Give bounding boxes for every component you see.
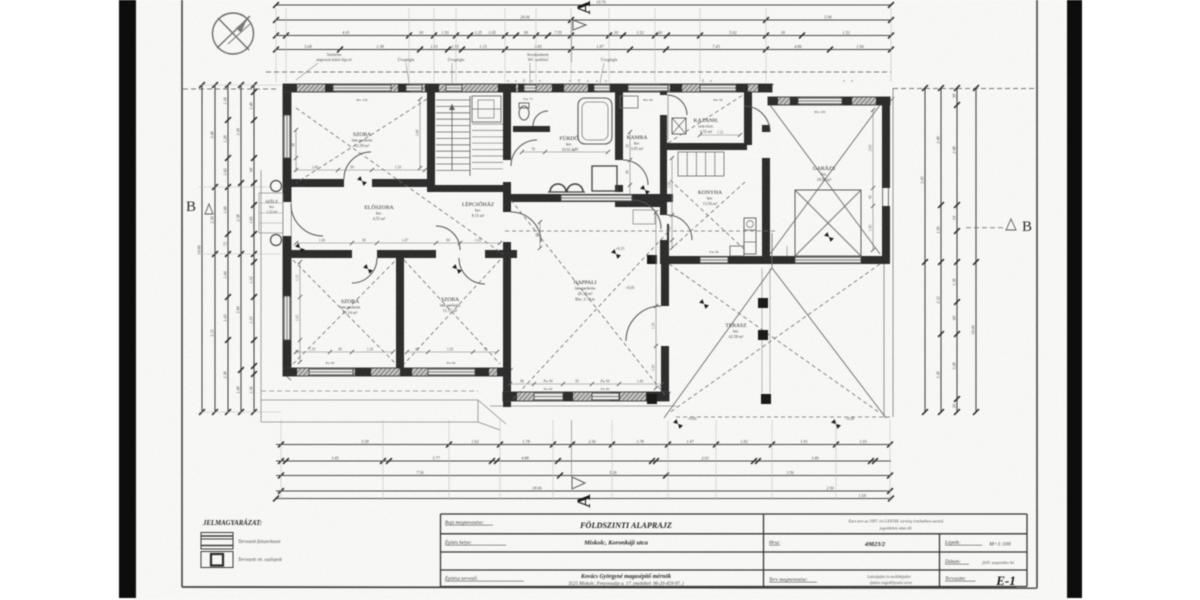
- svg-text:A: A: [574, 0, 595, 14]
- svg-text:18: 18: [577, 79, 581, 83]
- svg-text:bet.: bet.: [733, 329, 739, 334]
- svg-text:8: 8: [595, 80, 599, 82]
- svg-text:13.56 m²: 13.56 m²: [703, 201, 718, 206]
- svg-text:WC szellőző: WC szellőző: [528, 57, 549, 62]
- svg-text:90: 90: [338, 348, 342, 352]
- svg-text:1.50: 1.50: [441, 30, 449, 35]
- svg-text:SZÉLF.: SZÉLF.: [265, 199, 278, 204]
- svg-text:1.90: 1.90: [668, 182, 672, 188]
- svg-text:jogvédelem alatt áll.: jogvédelem alatt áll.: [879, 526, 913, 531]
- svg-text:1.78: 1.78: [522, 439, 530, 444]
- svg-text:2.40: 2.40: [936, 135, 941, 143]
- svg-text:lam.parketta: lam.parketta: [340, 305, 361, 310]
- svg-text:Bw 150: Bw 150: [357, 98, 368, 102]
- svg-text:90: 90: [362, 239, 366, 243]
- svg-text:3.05 m²: 3.05 m²: [631, 146, 644, 151]
- svg-text:1.55: 1.55: [451, 44, 458, 49]
- svg-text:1.43: 1.43: [223, 314, 228, 321]
- svg-text:26.58 m²: 26.58 m²: [578, 291, 593, 296]
- svg-text:4.55 m²: 4.55 m²: [373, 216, 386, 221]
- svg-text:Pw 90: Pw 90: [599, 380, 609, 384]
- svg-text:8: 8: [530, 80, 534, 82]
- svg-text:Bw 240: Bw 240: [815, 110, 826, 114]
- svg-text:8: 8: [850, 80, 854, 82]
- svg-text:bet.: bet.: [821, 172, 827, 177]
- svg-text:Ezen terv az 1997. évi LXXVIII: Ezen terv az 1997. évi LXXVIII. törvény …: [848, 519, 944, 524]
- svg-text:60: 60: [869, 195, 873, 199]
- svg-text:1.22 m²: 1.22 m²: [266, 210, 277, 214]
- svg-text:3.45: 3.45: [331, 456, 338, 461]
- svg-text:5.68: 5.68: [304, 44, 312, 49]
- svg-text:1.52: 1.52: [249, 276, 254, 283]
- svg-text:5.26: 5.26: [609, 470, 617, 475]
- svg-text:3.28: 3.28: [952, 361, 957, 369]
- svg-text:2.10: 2.10: [572, 148, 578, 152]
- svg-text:3525 Miskolc, Fenyvesalja u. 1: 3525 Miskolc, Fenyvesalja u. 17. (mobilt…: [568, 582, 684, 587]
- svg-text:3.40: 3.40: [811, 456, 819, 461]
- svg-text:Építész tervező:: Építész tervező:: [444, 574, 478, 582]
- svg-text:5.45: 5.45: [920, 176, 925, 183]
- svg-text:18: 18: [522, 79, 526, 83]
- svg-text:JELMAGYARÁZAT:: JELMAGYARÁZAT:: [202, 519, 262, 527]
- svg-text:B: B: [186, 199, 196, 215]
- svg-text:A: A: [574, 494, 595, 508]
- svg-text:4.41: 4.41: [342, 30, 349, 35]
- svg-text:Miskolc, Koronkáji utca: Miskolc, Koronkáji utca: [583, 540, 649, 547]
- svg-text:1.18: 1.18: [309, 348, 315, 352]
- svg-text:1.38: 1.38: [376, 44, 384, 49]
- svg-text:Bm: 2.70 m: Bm: 2.70 m: [575, 297, 595, 302]
- svg-text:1.47: 1.47: [686, 439, 694, 444]
- svg-text:ker.: ker.: [376, 211, 382, 216]
- svg-text:Bw 90: Bw 90: [643, 98, 652, 102]
- svg-text:építési engedélyezési terve: építési engedélyezési terve: [870, 580, 913, 585]
- svg-text:2.48: 2.48: [952, 145, 957, 153]
- svg-text:82: 82: [668, 226, 672, 230]
- svg-text:13.14 m²: 13.14 m²: [343, 310, 358, 315]
- svg-text:49823/2: 49823/2: [864, 541, 885, 548]
- svg-text:Pw 90: Pw 90: [544, 387, 553, 391]
- svg-text:1.91: 1.91: [800, 439, 807, 444]
- svg-text:78: 78: [531, 148, 535, 152]
- svg-text:1.52: 1.52: [636, 30, 643, 35]
- svg-text:ker.: ker.: [566, 142, 572, 147]
- svg-text:3.48: 3.48: [210, 130, 215, 138]
- svg-text:Tervezett falszerkezet: Tervezett falszerkezet: [238, 540, 281, 545]
- svg-text:2.02: 2.02: [701, 456, 708, 461]
- svg-text:lam.parketta: lam.parketta: [575, 286, 596, 291]
- svg-text:80: 80: [626, 170, 630, 174]
- svg-text:ker.: ker.: [634, 141, 640, 146]
- svg-text:8: 8: [709, 80, 713, 82]
- svg-text:18.94 m²: 18.94 m²: [817, 177, 832, 182]
- svg-text:8.15 m²: 8.15 m²: [472, 213, 485, 218]
- svg-text:ker.: ker.: [475, 208, 481, 213]
- svg-text:1.80: 1.80: [312, 166, 318, 170]
- svg-text:1.43: 1.43: [296, 315, 300, 321]
- svg-text:72: 72: [223, 242, 228, 246]
- svg-text:1.40: 1.40: [637, 380, 643, 384]
- svg-text:1.50: 1.50: [395, 166, 401, 170]
- svg-text:5.02: 5.02: [729, 30, 736, 35]
- svg-text:Üvegtégla: Üvegtégla: [398, 57, 415, 62]
- svg-text:Pw 90: Pw 90: [542, 380, 552, 384]
- svg-text:92: 92: [626, 144, 630, 148]
- svg-text:11.57 m²: 11.57 m²: [443, 308, 458, 313]
- svg-text:E-1: E-1: [995, 573, 1016, 588]
- svg-text:1.40: 1.40: [249, 101, 254, 109]
- svg-text:1.36: 1.36: [367, 348, 373, 352]
- svg-text:1.40: 1.40: [319, 239, 325, 243]
- svg-text:10.46: 10.46: [971, 324, 976, 334]
- svg-text:1.45: 1.45: [869, 225, 873, 231]
- svg-text:Pw 90: Pw 90: [601, 387, 610, 391]
- svg-text:M=1:100: M=1:100: [988, 542, 1011, 548]
- svg-text:1.02: 1.02: [471, 439, 478, 444]
- svg-text:2.60: 2.60: [869, 145, 873, 151]
- svg-text:Pw 90: Pw 90: [447, 361, 456, 365]
- svg-text:1.60: 1.60: [223, 205, 228, 213]
- svg-text:3.77: 3.77: [432, 456, 440, 461]
- svg-text:19.76: 19.76: [596, 0, 606, 5]
- svg-text:1.50: 1.50: [652, 365, 656, 371]
- svg-text:alapozott külső lépcső: alapozott külső lépcső: [316, 57, 352, 62]
- svg-text:95: 95: [575, 380, 579, 384]
- svg-text:10.06: 10.06: [197, 244, 202, 254]
- svg-text:85: 85: [536, 233, 540, 237]
- svg-text:1.52: 1.52: [842, 30, 849, 35]
- svg-text:2.38: 2.38: [223, 370, 228, 378]
- svg-text:54: 54: [952, 216, 957, 220]
- svg-text:Bw 90: Bw 90: [713, 98, 722, 102]
- svg-text:1.87: 1.87: [596, 44, 604, 49]
- svg-text:1.96: 1.96: [936, 225, 941, 233]
- svg-text:3.90: 3.90: [236, 305, 241, 313]
- svg-text:7.56: 7.56: [416, 470, 424, 475]
- svg-text:7.55: 7.55: [554, 30, 561, 35]
- svg-text:78: 78: [483, 348, 487, 352]
- svg-text:1.05: 1.05: [488, 30, 495, 35]
- svg-text:2.50: 2.50: [826, 486, 834, 491]
- svg-text:1.18: 1.18: [223, 96, 228, 104]
- svg-text:Kovács Györgyné magasépítő mé: Kovács Györgyné magasépítő mérnök: [580, 574, 671, 580]
- svg-text:1.55: 1.55: [249, 316, 254, 323]
- svg-text:4.86: 4.86: [794, 44, 802, 49]
- svg-text:12.58 m²: 12.58 m²: [355, 143, 370, 148]
- svg-text:1.15: 1.15: [296, 275, 300, 281]
- svg-text:Üvegtégla: Üvegtégla: [448, 57, 465, 62]
- svg-text:lam.parketta: lam.parketta: [352, 138, 373, 143]
- svg-text:8: 8: [514, 80, 518, 82]
- svg-text:Lakóépület és melléképület: Lakóépület és melléképület: [866, 574, 911, 579]
- svg-text:1.50: 1.50: [447, 348, 453, 352]
- svg-text:ker.: ker.: [707, 196, 713, 201]
- svg-text:2.56: 2.56: [588, 439, 596, 444]
- svg-text:Építés helye:: Építés helye:: [444, 538, 472, 546]
- svg-text:3.85: 3.85: [534, 44, 541, 49]
- svg-text:2.30: 2.30: [210, 215, 215, 223]
- svg-text:1.47: 1.47: [402, 239, 408, 243]
- svg-text:94: 94: [292, 143, 296, 147]
- svg-text:90: 90: [350, 166, 354, 170]
- svg-text:4.88: 4.88: [521, 456, 529, 461]
- svg-text:42.58 m²: 42.58 m²: [729, 334, 744, 339]
- svg-text:1.15: 1.15: [479, 44, 486, 49]
- svg-text:8: 8: [586, 80, 590, 82]
- svg-text:90: 90: [446, 239, 450, 243]
- svg-text:B: B: [1022, 219, 1032, 235]
- svg-text:2.32: 2.32: [936, 296, 941, 303]
- svg-text:1.02: 1.02: [223, 168, 228, 175]
- svg-text:1.40: 1.40: [236, 385, 241, 393]
- svg-text:5.15: 5.15: [210, 329, 215, 336]
- svg-text:24.06: 24.06: [520, 15, 530, 20]
- svg-text:2019. szeptember hó: 2019. szeptember hó: [982, 561, 1014, 565]
- svg-text:FÖLDSZINTI ALAPRAJZ: FÖLDSZINTI ALAPRAJZ: [579, 521, 672, 530]
- svg-text:szm.tiszt.: szm.tiszt.: [698, 124, 713, 129]
- svg-text:1.36: 1.36: [249, 385, 254, 393]
- svg-text:1.82: 1.82: [740, 439, 747, 444]
- svg-text:5.96: 5.96: [824, 15, 832, 20]
- svg-text:5.58: 5.58: [361, 439, 369, 444]
- svg-text:3.30: 3.30: [236, 127, 241, 135]
- svg-text:lam.parketta: lam.parketta: [440, 303, 461, 308]
- svg-text:ker.: ker.: [269, 205, 274, 209]
- svg-text:Üvegtégla: Üvegtégla: [601, 57, 618, 62]
- svg-text:3.10: 3.10: [652, 255, 656, 261]
- svg-text:Fsz 90: Fsz 90: [709, 250, 718, 254]
- svg-text:1.32: 1.32: [717, 131, 723, 135]
- svg-text:1.96: 1.96: [856, 44, 864, 49]
- svg-text:1.05: 1.05: [249, 216, 254, 223]
- svg-text:1.05: 1.05: [475, 239, 481, 243]
- svg-text:1.28: 1.28: [223, 134, 228, 142]
- svg-text:2.38: 2.38: [236, 213, 241, 221]
- svg-text:1.30: 1.30: [652, 323, 656, 329]
- svg-text:18.06: 18.06: [532, 486, 542, 491]
- svg-text:Fsz 75: Fsz 75: [523, 97, 532, 101]
- svg-text:Pw 90: Pw 90: [326, 361, 335, 365]
- svg-text:3.44: 3.44: [416, 130, 420, 136]
- svg-text:8: 8: [604, 80, 608, 82]
- svg-text:88: 88: [520, 380, 524, 384]
- svg-text:1.54: 1.54: [858, 493, 865, 498]
- svg-text:1.03: 1.03: [859, 439, 866, 444]
- svg-text:3.38: 3.38: [936, 370, 941, 378]
- svg-text:8: 8: [568, 80, 572, 82]
- svg-text:Tervezett vb. oszlopok: Tervezett vb. oszlopok: [238, 558, 283, 563]
- svg-text:1.25: 1.25: [474, 30, 481, 35]
- svg-text:1.36: 1.36: [952, 277, 957, 285]
- svg-text:8: 8: [538, 80, 542, 82]
- svg-text:7.43: 7.43: [712, 44, 719, 49]
- svg-text:72: 72: [296, 350, 300, 354]
- svg-text:68: 68: [415, 348, 419, 352]
- svg-text:8: 8: [506, 80, 510, 82]
- svg-text:8: 8: [842, 80, 846, 82]
- svg-text:18: 18: [701, 79, 705, 83]
- svg-text:1.44: 1.44: [223, 271, 228, 278]
- svg-text:3.56: 3.56: [786, 470, 794, 475]
- svg-text:1.78: 1.78: [636, 439, 644, 444]
